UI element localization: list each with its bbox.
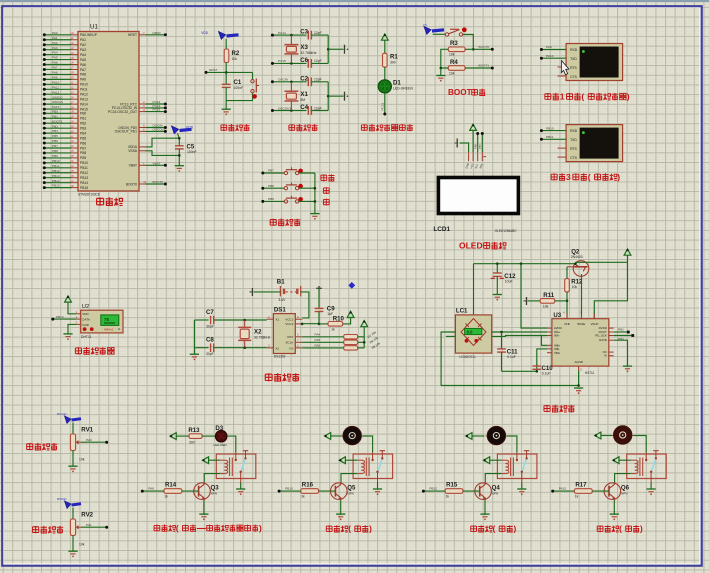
svg-text:27: 27 xyxy=(70,179,74,183)
relay of Q6 group xyxy=(627,451,667,489)
svg-text:TXD: TXD xyxy=(570,138,577,142)
relay of Q3 group xyxy=(216,451,256,489)
svg-text:32.768kHz: 32.768kHz xyxy=(300,51,317,55)
capacitor C1 100nF xyxy=(222,72,243,100)
ground of BOOT circuit xyxy=(436,76,445,82)
svg-text:OLED: OLED xyxy=(459,240,483,250)
capacitor C10 0.1uF xyxy=(532,364,553,376)
svg-text:10k: 10k xyxy=(232,57,238,61)
resistor R15 1k xyxy=(445,481,480,498)
wire arrow to motor xyxy=(331,435,343,437)
svg-text:C3: C3 xyxy=(300,29,308,36)
svg-text:PA7: PA7 xyxy=(80,68,86,72)
svg-text:GND: GND xyxy=(82,323,90,327)
U1 pin PA6 wire / net PA6 xyxy=(43,61,86,67)
capacitor C7 30pF xyxy=(194,309,266,328)
svg-text:R15: R15 xyxy=(446,481,458,488)
motor (water pump) xyxy=(612,426,633,444)
svg-text:TXD: TXD xyxy=(570,57,577,61)
svg-text:X2: X2 xyxy=(254,328,262,335)
transistor Q5 NPN xyxy=(331,483,357,501)
capacitor C3 12pF xyxy=(300,29,328,40)
text BOOT电路 xyxy=(448,88,485,97)
svg-text:100nF: 100nF xyxy=(234,86,244,90)
svg-text:(: ( xyxy=(176,524,179,533)
svg-text:PB12: PB12 xyxy=(52,169,60,173)
svg-text:PC13: PC13 xyxy=(380,102,384,110)
svg-text:PA3: PA3 xyxy=(80,48,86,52)
virtual terminal serial port 3 xyxy=(566,125,623,162)
svg-text:PB10: PB10 xyxy=(52,159,60,163)
svg-text:75: 75 xyxy=(104,317,109,322)
wire coil bottom to collector Q3 xyxy=(204,474,220,483)
wire Q2 base to R12 xyxy=(566,267,568,279)
svg-text:BOOT0: BOOT0 xyxy=(126,182,137,186)
wire keys common to ground xyxy=(314,173,317,214)
wire PD_SCK to PB0 xyxy=(614,334,635,341)
resistor R1 300 xyxy=(383,40,399,67)
ground below C12 xyxy=(493,295,502,301)
OLED pin header 4 pins xyxy=(464,152,486,169)
svg-text:NRST: NRST xyxy=(153,31,162,35)
svg-text:43: 43 xyxy=(70,144,74,148)
wire net OSCOUT xyxy=(271,106,307,112)
coil input arrow Q3 xyxy=(202,457,220,464)
wire R12 bottom to VFB node xyxy=(566,292,569,309)
motor (feeder) xyxy=(486,426,508,444)
push button PB8 xyxy=(261,183,315,190)
svg-text:(: ( xyxy=(581,91,584,101)
RTS stub xyxy=(558,66,567,68)
svg-text:BASE: BASE xyxy=(578,322,586,326)
wire Q2 emitter to top rail xyxy=(575,263,577,265)
svg-text:BOOT: BOOT xyxy=(448,88,472,97)
svg-text:41: 41 xyxy=(70,134,74,138)
text 复位电路 xyxy=(221,124,250,131)
svg-text:PB11: PB11 xyxy=(80,166,88,170)
svg-text:): ) xyxy=(259,524,262,533)
svg-text:45: 45 xyxy=(70,149,74,153)
wire rail down to LC1 top xyxy=(473,264,475,323)
wire net PB13 to R16 xyxy=(278,487,301,493)
virtual terminal serial port 1 xyxy=(566,44,623,81)
wire OLED VCC to power xyxy=(472,130,474,152)
svg-text:NPN: NPN xyxy=(348,491,354,495)
wire motor to relay pin1 xyxy=(507,436,517,452)
svg-text:U3: U3 xyxy=(553,312,561,319)
U1 pin PA8 wire / net PA8 xyxy=(43,71,86,77)
LCD1 OLED display xyxy=(433,176,520,233)
resistor R17 1k xyxy=(574,481,609,498)
wire OLED SDA xyxy=(478,132,484,152)
svg-text:14: 14 xyxy=(70,51,74,55)
svg-text:PB8: PB8 xyxy=(80,151,86,155)
svg-text:(: ( xyxy=(619,525,622,534)
svg-text:PB7: PB7 xyxy=(52,144,58,148)
svg-text:C4: C4 xyxy=(300,104,308,111)
wire VCC2 node to R10 xyxy=(301,323,328,326)
svg-text:SCLK: SCLK xyxy=(286,341,294,345)
svg-text:30pF: 30pF xyxy=(206,352,214,356)
crystal X2 32.768kHz xyxy=(238,319,270,349)
svg-text:OSCOUT_PD1: OSCOUT_PD1 xyxy=(115,130,138,134)
svg-text:VBAT: VBAT xyxy=(153,161,161,165)
svg-text:12: 12 xyxy=(70,41,74,45)
power terminal for RV1 xyxy=(57,412,81,423)
U1 pin PA7 wire / net PA7 xyxy=(43,66,86,72)
U1 pin PC15-OSC32_OUT wire / net PC15 xyxy=(108,108,167,114)
U1 pin PB1 wire / net PB1 xyxy=(43,114,87,120)
ground below relay Q3 xyxy=(236,489,245,495)
svg-text:X3: X3 xyxy=(300,44,308,51)
ground below relay Q6 xyxy=(647,489,656,495)
wire R3/R4 left common xyxy=(440,49,449,75)
svg-text:PC14: PC14 xyxy=(278,31,286,35)
svg-text:PA0-WKUP: PA0-WKUP xyxy=(80,33,98,37)
capacitor C5 100nF xyxy=(175,138,197,155)
svg-text:12pF: 12pF xyxy=(314,78,322,82)
svg-text:PA10: PA10 xyxy=(52,80,60,84)
wire C1/button to ground xyxy=(226,101,252,110)
wire emitter of Q3 to ground xyxy=(203,500,205,515)
svg-text:PA6: PA6 xyxy=(315,344,321,348)
svg-text:BOOT1: BOOT1 xyxy=(479,64,490,68)
U1 pin PA3 wire / net PA3 xyxy=(43,46,86,52)
svg-text:PA6: PA6 xyxy=(80,63,86,67)
svg-text:PA15: PA15 xyxy=(559,487,567,491)
wire rail A (C11 bottom to INB-) xyxy=(502,349,548,373)
svg-text:LED-RED: LED-RED xyxy=(214,443,228,447)
ground of U2 xyxy=(63,334,72,340)
svg-text:PB0: PB0 xyxy=(80,112,86,116)
svg-text:): ) xyxy=(627,91,630,101)
wire LC1 left loop to AGND xyxy=(441,332,580,387)
relay of Q5 group xyxy=(353,451,393,489)
svg-text:0.1uF: 0.1uF xyxy=(542,372,551,376)
svg-text:D3: D3 xyxy=(215,425,223,432)
text 温度调节 xyxy=(33,526,64,534)
svg-text:PB10: PB10 xyxy=(546,126,554,130)
svg-text:PC15-OSC32_OUT: PC15-OSC32_OUT xyxy=(108,110,137,114)
svg-text:RV2: RV2 xyxy=(81,512,93,519)
svg-text:34: 34 xyxy=(70,95,74,99)
text 继电器(加水) xyxy=(597,525,643,534)
terminal bar (ground terminal) xyxy=(345,45,349,54)
coil input arrow Q6 xyxy=(613,457,631,464)
svg-text:PB14: PB14 xyxy=(52,179,60,183)
svg-text:PA13: PA13 xyxy=(80,97,88,101)
svg-text:OSCOUT: OSCOUT xyxy=(278,106,291,110)
capacitor C11 0.1uF xyxy=(497,332,518,371)
wire coil bottom to collector Q6 xyxy=(615,474,631,483)
wire net PC15 xyxy=(271,59,307,65)
svg-text:DS1302: DS1302 xyxy=(274,355,286,359)
wire VSSA to C5 bottom junction xyxy=(178,154,181,157)
wire D3 to relay pin1 xyxy=(227,436,236,452)
wire net PB11 to TXD xyxy=(540,135,566,141)
resistor R7 10k xyxy=(344,330,378,339)
svg-text:NPN: NPN xyxy=(211,491,217,495)
svg-text:(: ( xyxy=(588,172,591,182)
svg-text:RTS: RTS xyxy=(570,147,577,151)
wire switch to R3 node xyxy=(463,35,475,51)
text 液位调节 xyxy=(27,443,58,451)
wire net PA4 (RST) xyxy=(302,333,343,337)
U1 pin PA1 wire / net PA1 xyxy=(43,36,86,42)
U1 pin PA13 wire / net SWDIO xyxy=(43,95,88,101)
svg-text:X1: X1 xyxy=(300,91,308,98)
power arrow for resistor pack xyxy=(361,321,368,327)
svg-text:100nF: 100nF xyxy=(187,150,197,154)
wire arrow to R13 xyxy=(176,435,189,437)
svg-text:C1: C1 xyxy=(234,79,242,86)
svg-text:D1: D1 xyxy=(393,79,401,86)
svg-text:1k: 1k xyxy=(164,494,168,498)
wire OLED GND to ground terminal xyxy=(455,139,469,153)
power arrow weight module xyxy=(624,249,631,262)
svg-text:PA6: PA6 xyxy=(52,61,58,65)
ground below relay Q5 xyxy=(373,489,382,495)
svg-text:PA10: PA10 xyxy=(80,83,88,87)
IC U3 HX711 xyxy=(552,311,609,375)
svg-text:26: 26 xyxy=(70,174,74,178)
U1 pin PC14-OSC32_IN wire / net PC14 xyxy=(112,104,167,110)
svg-text:): ) xyxy=(369,525,372,534)
svg-text:B1: B1 xyxy=(277,278,285,285)
svg-text:3: 3 xyxy=(566,172,571,182)
window top edge band xyxy=(0,0,709,2)
text 称重模块 xyxy=(544,405,575,413)
svg-text:10uF: 10uF xyxy=(505,280,513,284)
U1 pin PA12 wire / net PA12 xyxy=(43,90,88,96)
svg-text:PA9: PA9 xyxy=(80,78,86,82)
ground below C5 xyxy=(175,155,184,171)
svg-text:12pF: 12pF xyxy=(314,106,322,110)
svg-text:CTS: CTS xyxy=(570,156,578,160)
svg-text:X1: X1 xyxy=(275,318,279,322)
svg-text:15: 15 xyxy=(70,56,74,60)
svg-text:PB7: PB7 xyxy=(268,169,274,173)
svg-text:PB3: PB3 xyxy=(52,124,58,128)
svg-text:PB1: PB1 xyxy=(80,117,86,121)
svg-text:DHT11: DHT11 xyxy=(81,335,92,339)
svg-text:RATE: RATE xyxy=(599,338,607,342)
svg-text:PA5: PA5 xyxy=(80,58,86,62)
svg-text:PB7: PB7 xyxy=(478,144,482,149)
wire net BOOT1 xyxy=(465,64,494,70)
svg-text:PB6: PB6 xyxy=(80,141,86,145)
svg-text:RV1(2): RV1(2) xyxy=(57,412,66,416)
wire resistor pack common to power xyxy=(363,327,366,348)
coil input arrow Q4 xyxy=(484,457,502,464)
transistor Q4 NPN xyxy=(475,483,501,501)
svg-text:PB8: PB8 xyxy=(268,184,274,188)
U1 pin VBAT wire / net VBAT xyxy=(129,161,167,167)
transistor Q2 2N4403 (PNP) xyxy=(571,249,589,277)
svg-text:1k: 1k xyxy=(445,494,449,498)
resistor R9 10k xyxy=(344,341,382,350)
svg-text:NPN: NPN xyxy=(621,491,627,495)
wire emitter of Q6 to ground xyxy=(613,500,615,515)
svg-text:42: 42 xyxy=(70,139,74,143)
svg-text:PB7: PB7 xyxy=(80,146,86,150)
svg-text:PB3: PB3 xyxy=(80,126,86,130)
svg-text:1k: 1k xyxy=(331,328,335,332)
svg-text:I/O: I/O xyxy=(289,346,294,350)
power arrow for R10 xyxy=(347,311,354,317)
resistor R12 10k xyxy=(565,278,583,292)
svg-text:BOOT1: BOOT1 xyxy=(52,119,63,123)
ground below Q3 xyxy=(199,514,208,520)
power terminal for reset circuit xyxy=(201,31,238,39)
wire net PA5 (SCLK) xyxy=(302,338,343,342)
svg-text:19: 19 xyxy=(70,114,74,118)
U1 pin PB5 wire / net PB5 xyxy=(43,134,87,140)
resistor R3 10k xyxy=(448,40,473,56)
power terminal VDD near C5 xyxy=(172,126,194,140)
U1 pin PB4 wire / net PB4 xyxy=(43,129,87,135)
U1 pin PB7 wire / net PB7 xyxy=(43,144,87,150)
power arrow (left) heater branch xyxy=(170,433,176,440)
svg-text:(: ( xyxy=(348,525,351,534)
svg-text:40: 40 xyxy=(70,129,74,133)
svg-text:SWCLK: SWCLK xyxy=(52,100,64,104)
svg-text:PB1: PB1 xyxy=(618,328,624,332)
svg-text:VBAT: VBAT xyxy=(129,164,137,168)
svg-text:PA0: PA0 xyxy=(86,438,92,442)
svg-text:): ) xyxy=(514,525,517,534)
svg-text:NPN: NPN xyxy=(492,491,498,495)
power terminal for LED R1 xyxy=(381,34,388,40)
ground below Q5 xyxy=(336,514,345,520)
ground below U3 AGND xyxy=(574,388,583,394)
text 独立按键 xyxy=(270,219,300,227)
crystal X1 8M xyxy=(284,82,308,111)
wire U2 GND to ground xyxy=(68,324,77,334)
wire net PC14 xyxy=(271,31,307,37)
crystal X3 32.768kHz xyxy=(284,35,317,63)
svg-text:8M: 8M xyxy=(300,98,305,102)
text 减 xyxy=(323,199,329,206)
svg-text:20: 20 xyxy=(70,119,74,123)
svg-text:SWDIO: SWDIO xyxy=(52,95,63,99)
U1 pin PB6 wire / net PB6 xyxy=(43,139,87,145)
svg-text:R10: R10 xyxy=(333,315,345,322)
wire net PA15 to R17 xyxy=(551,487,574,493)
LC1 LOADCELL xyxy=(455,308,491,359)
svg-text:PB11: PB11 xyxy=(52,164,60,168)
svg-text:U1: U1 xyxy=(90,24,98,31)
U1 pin PB13 wire / net PB13 xyxy=(43,174,88,180)
svg-text:PA10: PA10 xyxy=(546,54,554,58)
svg-text:RV2(2): RV2(2) xyxy=(57,497,66,501)
ground of keys xyxy=(310,214,319,220)
svg-text:16: 16 xyxy=(70,61,74,65)
svg-text:PB15: PB15 xyxy=(52,184,60,188)
svg-text:37: 37 xyxy=(70,100,74,104)
svg-text:PB13: PB13 xyxy=(80,176,88,180)
wire top rail of weight module xyxy=(474,262,576,265)
U1 pin PA10 wire / net PA10 xyxy=(43,80,88,86)
text 继电器(加热...) xyxy=(154,524,262,533)
wire rail down to U3 AVDD xyxy=(521,264,547,328)
svg-text:R17: R17 xyxy=(575,481,587,488)
ground of reset circuit xyxy=(222,109,231,115)
U1 pin BOOT0 wire / net BOOT0 xyxy=(126,180,167,186)
svg-text:PA8: PA8 xyxy=(148,487,154,491)
svg-text:%RH+0: %RH+0 xyxy=(104,328,114,332)
svg-text:PB12: PB12 xyxy=(429,487,437,491)
text 晶振电路 xyxy=(289,124,318,131)
svg-text:VBG: VBG xyxy=(554,351,561,355)
svg-text:PB2: PB2 xyxy=(80,122,86,126)
wire R2 to NRST node xyxy=(205,63,253,74)
svg-text:PA3: PA3 xyxy=(52,46,58,50)
svg-text:BOOT0: BOOT0 xyxy=(479,45,490,49)
svg-text:PA5: PA5 xyxy=(315,338,321,342)
U1 pin PB9 wire / net PB9 xyxy=(43,154,87,160)
svg-text:RXD: RXD xyxy=(570,48,578,52)
ground for RATE xyxy=(623,366,632,372)
wire power to U2 VDD xyxy=(68,302,77,314)
U1 pin PA5 wire / net PA5 xyxy=(43,56,86,62)
svg-text:HX711: HX711 xyxy=(585,371,595,375)
svg-text:PA14: PA14 xyxy=(80,102,88,106)
svg-text:VDD: VDD xyxy=(201,31,208,35)
text 继电器(投喂) xyxy=(471,525,517,534)
svg-text:PA11: PA11 xyxy=(80,88,88,92)
svg-text:PB15: PB15 xyxy=(80,186,88,190)
capacitor C4 12pF xyxy=(300,104,328,115)
svg-text:12pF: 12pF xyxy=(314,31,322,35)
svg-text:DATA: DATA xyxy=(82,318,90,322)
potentiometer RV1 10k xyxy=(70,423,108,467)
svg-text:R4: R4 xyxy=(450,59,458,66)
svg-text:PA4: PA4 xyxy=(80,53,86,57)
ground below Q6 xyxy=(610,514,619,520)
svg-text:10k: 10k xyxy=(572,285,578,289)
wire net PB14 to U2 DATA xyxy=(51,315,76,321)
wire coil bottom to collector Q4 xyxy=(485,474,501,483)
svg-text:10k: 10k xyxy=(543,305,549,309)
svg-text:X2: X2 xyxy=(275,346,279,350)
svg-text:PB13: PB13 xyxy=(52,174,60,178)
wire caps common to terminal xyxy=(327,82,344,111)
U1 pin PA11 wire / net PA11 xyxy=(43,85,88,91)
svg-text:12pF: 12pF xyxy=(314,59,322,63)
wire RATE to ground xyxy=(614,340,628,366)
svg-text:PB14: PB14 xyxy=(80,181,88,185)
U1 pin PC13_RTC wire / net PC13 xyxy=(120,100,167,106)
resistor R13 300 xyxy=(188,427,202,444)
svg-text:R3: R3 xyxy=(450,40,458,47)
U1 pin PB10 wire / net PB10 xyxy=(43,159,88,165)
svg-text:PB9: PB9 xyxy=(80,156,86,160)
svg-text:PC15: PC15 xyxy=(278,59,286,63)
svg-text:32: 32 xyxy=(70,85,74,89)
text 时钟模块 xyxy=(265,373,299,382)
resistor R16 1k xyxy=(301,481,336,498)
svg-text:PB4: PB4 xyxy=(52,129,58,133)
svg-text:25: 25 xyxy=(70,169,74,173)
blue marker diamond xyxy=(348,282,355,289)
U1 pin VDDA wire xyxy=(128,138,179,149)
svg-text:10k: 10k xyxy=(449,53,455,57)
svg-text:PA12: PA12 xyxy=(52,90,60,94)
wire OLED SCL xyxy=(473,132,479,152)
wire emitter of Q5 to ground xyxy=(340,500,342,515)
text 串口1窗口 xyxy=(545,91,630,101)
